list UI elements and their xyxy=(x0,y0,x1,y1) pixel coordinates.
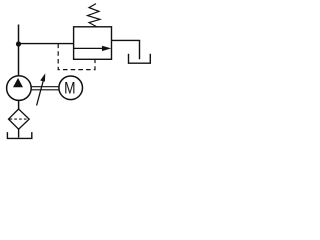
pump P1 outlet triangle (filled, up) xyxy=(13,78,23,87)
wire: pump to filter xyxy=(18,100,20,109)
wire: filter to tank T1 xyxy=(18,129,20,137)
tank T2 (right) xyxy=(129,54,151,64)
shaft (double line) pump to motor xyxy=(31,87,59,90)
relief valve V1 body xyxy=(74,27,112,60)
relief valve flow arrow xyxy=(74,46,111,51)
node: junction dot xyxy=(16,41,21,46)
wire: supply riser xyxy=(18,25,20,77)
filter F1 diamond xyxy=(9,109,30,129)
relief valve spring xyxy=(88,4,101,27)
wire: valve outlet to tank T2 xyxy=(112,40,140,59)
pump P1 circle xyxy=(7,76,32,101)
motor M1 circle xyxy=(59,76,83,100)
pilot line (dashed) to relief valve xyxy=(58,44,95,70)
variable displacement arrow through shaft xyxy=(37,73,46,105)
tank T1 (bottom) xyxy=(7,132,31,138)
svg-text:M: M xyxy=(64,80,75,98)
wire: junction to relief valve inlet xyxy=(19,43,74,45)
motor label M xyxy=(64,80,75,98)
